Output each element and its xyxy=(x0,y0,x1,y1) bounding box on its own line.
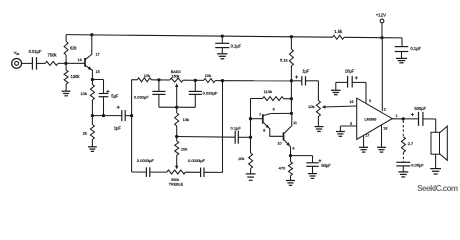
transistor Q1 base bar xyxy=(78,58,85,67)
svg-text:11: 11 xyxy=(293,121,297,125)
ground rail bypass mid xyxy=(217,54,227,59)
svg-text:5.1k: 5.1k xyxy=(280,58,288,63)
svg-text:750k: 750k xyxy=(48,53,58,58)
resistor 2.7 zobel xyxy=(401,137,414,153)
capacitor 500uF output xyxy=(411,106,427,126)
wire twin-T output to collector node xyxy=(223,80,292,82)
ground pin 5 xyxy=(336,132,345,137)
wire base line vertical xyxy=(250,99,252,154)
wire zobel dashed top xyxy=(402,121,404,137)
svg-text:2k: 2k xyxy=(83,130,87,135)
svg-text:130k: 130k xyxy=(71,74,81,79)
node collector junction xyxy=(290,112,293,115)
node +12V supply xyxy=(380,36,383,39)
svg-text:500k: 500k xyxy=(171,178,179,182)
capacitor 0.01uF input coupling xyxy=(29,49,42,69)
node treble junction node4 xyxy=(175,135,178,138)
svg-text:16: 16 xyxy=(349,100,353,104)
resistor 10k base bias to ground xyxy=(238,153,253,174)
wire cap to resistor xyxy=(37,62,46,64)
svg-text:5µF: 5µF xyxy=(111,93,119,98)
capacitor 5uF emitter bypass xyxy=(99,80,119,116)
resistor 110k feedback xyxy=(251,89,292,101)
ground pin 18 xyxy=(377,147,386,152)
wire tone input vertical xyxy=(131,80,133,172)
ground 2k xyxy=(88,147,97,152)
ground base bias xyxy=(246,174,256,180)
node twin-T node1 xyxy=(157,78,160,81)
node emitter junction xyxy=(91,78,94,81)
wire top supply rail xyxy=(66,35,402,38)
svg-text:150k: 150k xyxy=(171,74,179,78)
capacitor 0.1uF supply bypass right xyxy=(395,38,422,58)
svg-text:500µF: 500µF xyxy=(414,106,426,111)
svg-text:110k: 110k xyxy=(264,89,272,94)
ground 10uF xyxy=(331,82,341,94)
wire pin 5 to ground xyxy=(340,122,356,132)
svg-text:8: 8 xyxy=(263,129,265,133)
resistor 10k twin-T left xyxy=(137,73,151,82)
svg-text:470: 470 xyxy=(279,166,286,171)
wire to node3 xyxy=(215,80,222,82)
wire 500uF to speaker xyxy=(423,119,436,132)
node input bias junction xyxy=(64,62,67,65)
svg-text:62k: 62k xyxy=(70,45,78,50)
ground volume pot xyxy=(315,127,324,132)
wire cap junction xyxy=(159,106,195,108)
node bass wiper junction xyxy=(175,106,178,109)
node base line 0.1uF tap xyxy=(249,136,252,139)
node base tap xyxy=(249,117,252,120)
resistor 2k to ground xyxy=(83,116,95,147)
wire pin 3 bypass xyxy=(366,82,371,103)
svg-text:0.1µF: 0.1µF xyxy=(231,43,242,48)
svg-text:LM389: LM389 xyxy=(365,117,377,122)
node tone network input xyxy=(130,114,133,117)
speaker SPKR xyxy=(431,126,447,168)
resistor 10k emitter xyxy=(80,80,94,116)
svg-text:10k: 10k xyxy=(183,117,189,122)
capacitor 0.0033uF treble left xyxy=(132,158,167,177)
wire treble wiper arrow xyxy=(175,155,178,169)
svg-text:10k: 10k xyxy=(238,156,244,161)
svg-text:1: 1 xyxy=(396,114,398,118)
ground supply bypass right xyxy=(396,58,407,62)
svg-text:9: 9 xyxy=(292,147,294,151)
svg-text:1µF: 1µF xyxy=(302,69,310,74)
resistor 750k input xyxy=(45,53,58,66)
wire emitter network bottom xyxy=(92,115,121,117)
node twin-T node3 output xyxy=(221,79,224,82)
capacitor 1uF to volume xyxy=(291,69,318,86)
wire 0.1uF to base line xyxy=(238,136,250,138)
capacitor 0.033uF twin-T left xyxy=(134,80,166,107)
svg-text:17: 17 xyxy=(365,134,369,138)
svg-text:2: 2 xyxy=(384,108,386,112)
wire node4 to 0.1uF xyxy=(177,136,236,139)
svg-text:6: 6 xyxy=(273,107,275,111)
svg-text:0.0033µF: 0.0033µF xyxy=(188,158,206,163)
svg-text:5: 5 xyxy=(350,122,352,126)
wire Vin to cap xyxy=(22,62,33,64)
wire to node2 xyxy=(183,79,203,81)
svg-text:TREBLE: TREBLE xyxy=(169,183,184,187)
svg-text:7: 7 xyxy=(259,113,261,117)
transistor Q2 base bar xyxy=(251,113,263,124)
wire twin-T input corner xyxy=(132,79,138,81)
capacitor 50uF emitter bypass xyxy=(291,156,332,174)
svg-text:10k: 10k xyxy=(308,104,314,109)
svg-text:14: 14 xyxy=(78,58,82,62)
capacitor 1uF coupling to tone network xyxy=(114,106,125,131)
svg-text:18: 18 xyxy=(383,127,387,131)
resistor 130k bias lower xyxy=(64,63,80,91)
node feedback tap xyxy=(290,97,293,100)
svg-text:10k: 10k xyxy=(181,147,187,152)
ground 470 xyxy=(286,181,295,186)
resistor 62k bias upper xyxy=(64,35,77,64)
node twin-T node2 xyxy=(194,79,197,82)
watermark SeekIC.com xyxy=(417,184,458,193)
svg-text:17: 17 xyxy=(96,52,100,56)
transistor Q1 emitter pin 15 xyxy=(85,65,100,79)
capacitor 0.0033uF treble right xyxy=(186,158,223,177)
node output xyxy=(402,117,405,120)
svg-text:10µF: 10µF xyxy=(345,68,355,73)
wire pin 2 supply xyxy=(382,38,385,112)
transistor Q2 emitter pin 8 xyxy=(263,122,284,136)
svg-text:0.1µF: 0.1µF xyxy=(411,46,422,51)
resistor 10k node4 down xyxy=(175,137,188,156)
svg-text:10k: 10k xyxy=(144,73,150,78)
transistor Q2 collector pin 6 xyxy=(263,107,292,115)
capacitor 0.1uF treble feedback xyxy=(231,125,242,143)
ground 50uF xyxy=(308,174,317,179)
wire zobel dashed mid xyxy=(402,152,404,162)
svg-text:0.05µF: 0.05µF xyxy=(411,162,424,167)
svg-text:0.033µF: 0.033µF xyxy=(134,95,149,100)
potentiometer BASS 150k xyxy=(170,70,184,82)
node rail bypass tap xyxy=(221,34,224,37)
wire pin 18 ground xyxy=(382,125,388,147)
op-amp U1 LM389 xyxy=(357,98,393,139)
resistor 10k wiper to node4 xyxy=(175,107,189,136)
ground pin 17 xyxy=(359,147,368,152)
wire pin 17 ground xyxy=(364,134,370,148)
transistor Q3 emitter pin 9 xyxy=(284,139,295,155)
node collector output xyxy=(290,79,293,82)
ground bias divider xyxy=(62,91,71,96)
svg-text:15: 15 xyxy=(96,70,100,74)
node emitter output xyxy=(289,154,292,157)
wire bass wiper arrow xyxy=(175,83,178,107)
potentiometer 10k volume xyxy=(308,81,320,127)
svg-text:10k: 10k xyxy=(80,91,86,96)
node Q1 collector at rail xyxy=(90,33,93,36)
capacitor 0.1uF rail bypass mid xyxy=(215,36,241,54)
wire to node1 xyxy=(151,79,169,81)
resistor 5.1k collector load xyxy=(280,37,293,114)
svg-text:10: 10 xyxy=(278,141,282,145)
wire resistor to base xyxy=(58,62,85,64)
transistor Q3 collector pin 11 xyxy=(284,113,297,134)
capacitor 0.05uF zobel xyxy=(396,162,424,172)
capacitor 0.033uF twin-T right xyxy=(189,80,218,107)
svg-text:10k: 10k xyxy=(205,73,211,78)
resistor 470 emitter to ground xyxy=(279,156,293,181)
transistor Q1 collector pin 17 xyxy=(85,35,100,60)
svg-text:50µF: 50µF xyxy=(321,163,331,168)
svg-text:0.0033µF: 0.0033µF xyxy=(137,158,155,163)
terminal Vin input jack xyxy=(12,50,22,68)
wire treble right vertical to node3 xyxy=(222,81,224,173)
wire amp output pin 1 xyxy=(392,114,418,119)
svg-text:SeekIC.com: SeekIC.com xyxy=(417,184,458,193)
svg-text:2.7: 2.7 xyxy=(408,141,414,146)
node emitter res bottom xyxy=(91,114,94,117)
resistor 1.5k supply xyxy=(333,29,345,39)
svg-text:0.1µF: 0.1µF xyxy=(231,125,242,130)
svg-text:0.01µF: 0.01µF xyxy=(29,49,42,54)
node rail collector load tap xyxy=(290,35,293,38)
svg-text:0.033µF: 0.033µF xyxy=(203,91,218,96)
terminal +12V xyxy=(376,12,386,37)
wire 1uF to tone input xyxy=(125,115,131,117)
wire volume wiper to amp input xyxy=(322,100,357,108)
potentiometer TREBLE 500k xyxy=(167,170,186,187)
resistor 10k twin-T right xyxy=(204,73,216,82)
svg-text:1µF: 1µF xyxy=(114,126,122,131)
node emitter cap bottom xyxy=(102,114,105,117)
transistor Q3 base bar xyxy=(278,132,284,145)
ground zobel xyxy=(398,172,408,177)
svg-text:3: 3 xyxy=(369,99,371,103)
svg-text:1.5k: 1.5k xyxy=(334,29,343,34)
capacitor 10uF bypass xyxy=(336,68,366,87)
ground speaker xyxy=(430,169,441,174)
svg-text:+12V: +12V xyxy=(376,12,386,17)
wire emitter to cap branch xyxy=(92,79,103,81)
